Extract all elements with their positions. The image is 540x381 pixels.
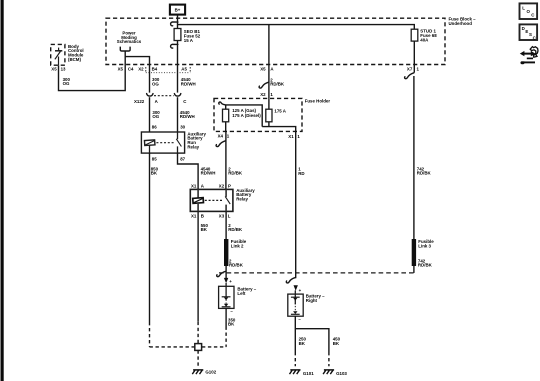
wire 742 RD/BK to fusible link 3: [413, 76, 415, 239]
fuse SEO B1 Fuse 52 15A: [174, 29, 181, 41]
svg-text:B+: B+: [175, 8, 181, 13]
B+ battery feed node: [170, 5, 185, 15]
relay K2 pin labels X1 B X3 L: [191, 214, 231, 219]
wire label 250 BK: [299, 337, 307, 346]
svg-text:RD/BK: RD/BK: [418, 263, 433, 268]
svg-text:40A: 40A: [420, 38, 429, 43]
dashed wire to G103: [328, 352, 330, 366]
wire label 850 BK: [151, 166, 159, 175]
wire label 300 OG (BCM): [63, 77, 71, 86]
svg-text:Relay: Relay: [236, 196, 248, 201]
svg-text:Link 2: Link 2: [231, 244, 244, 249]
svg-text:X5: X5: [51, 66, 57, 71]
connector X122: [147, 94, 181, 96]
ground G102: [192, 370, 203, 374]
wire B+ into fuse block: [177, 15, 179, 29]
wire label 1 RD: [298, 167, 304, 176]
icon LOC button: [520, 3, 538, 19]
svg-text:BK: BK: [151, 171, 158, 176]
svg-text:RD/BK: RD/BK: [228, 227, 243, 232]
wire 350 BK battery left negative: [225, 308, 227, 326]
connector hook battery right: [286, 278, 295, 283]
svg-text:BK: BK: [228, 322, 235, 327]
svg-text:L: L: [228, 214, 231, 219]
svg-text:X7: X7: [407, 67, 413, 72]
dashed wire to G101: [294, 352, 296, 366]
terminal arrow battery left positive: [224, 278, 232, 284]
dashed wire 550 BK to splice: [197, 322, 199, 344]
svg-text:X2: X2: [138, 66, 144, 71]
svg-text:X5: X5: [260, 66, 266, 71]
svg-text:175 A (Diesel): 175 A (Diesel): [232, 113, 261, 118]
fuse 125A gas 175A diesel: [223, 105, 229, 131]
wire 550 BK from K2 coil: [197, 211, 199, 321]
svg-text:RD/BK: RD/BK: [417, 171, 432, 176]
relay K2 pin labels X1 A X2 P: [191, 183, 231, 188]
X122 pin labels: [134, 99, 187, 104]
svg-text:E: E: [525, 29, 528, 34]
connector hook X4: [216, 141, 225, 147]
svg-text:X2: X2: [260, 92, 266, 97]
relay K2 Auxiliary Battery Relay: [190, 189, 233, 211]
wire label 550 BK: [201, 223, 209, 232]
fusible link 3 label: [418, 239, 434, 248]
BCM pin X5 13: [51, 66, 66, 71]
svg-text:RD/WH: RD/WH: [201, 171, 216, 176]
wire label 4540 RD/WH (A5): [181, 77, 196, 86]
svg-text:Relay: Relay: [187, 144, 199, 149]
wire label 2 RD/BK: [270, 77, 285, 86]
wire link 3 to dashed bus: [413, 266, 415, 273]
wire label 742 RD/BK (below link): [418, 258, 433, 267]
svg-text:RD/BK: RD/BK: [229, 263, 244, 268]
wire 1 RD from fuse holder to battery right: [295, 131, 297, 278]
svg-text:O: O: [527, 9, 531, 14]
dashed bus battery feed (off-page): [219, 272, 414, 274]
wire label 742 RD/BK: [417, 166, 432, 175]
icon DESC button: [520, 24, 538, 40]
svg-text:RD/WH: RD/WH: [180, 114, 195, 119]
svg-text:Left: Left: [237, 291, 246, 296]
svg-text:D: D: [522, 26, 525, 31]
connector hook battery left: [217, 271, 226, 276]
wire label 2 RD/BK (below link): [229, 258, 244, 267]
pin labels X2 1: [260, 92, 273, 97]
wire top feed rail to STUD 1: [178, 25, 415, 30]
battery right label: [306, 294, 325, 303]
relay K2 label: [236, 188, 255, 202]
svg-text:Schematics: Schematics: [117, 39, 142, 44]
svg-text:RD/BK: RD/BK: [228, 171, 243, 176]
fuse holder dashed box: [214, 98, 302, 131]
svg-text:+: +: [299, 288, 302, 293]
BCM label: [68, 44, 84, 62]
fuse F1 value label: [184, 29, 201, 43]
svg-text:+: +: [229, 279, 232, 284]
wire label 2 RD/BK (to link): [228, 223, 243, 232]
svg-text:86: 86: [152, 125, 157, 130]
wire fuse holder internal rail bottom to X1: [262, 127, 296, 132]
connector dotted line B4 to A5: [146, 72, 190, 74]
svg-text:X4: X4: [218, 134, 224, 139]
svg-text:87: 87: [180, 157, 185, 162]
fuse value label 125A/175A: [232, 108, 261, 118]
pin labels X5 C4: [118, 66, 134, 71]
svg-text:G102: G102: [205, 370, 216, 375]
fuse STUD 1 Fuse 68 40A: [411, 29, 418, 41]
pin labels X5 A (feed to fuse holder): [260, 66, 274, 71]
svg-text:85: 85: [152, 157, 157, 162]
svg-text:30: 30: [180, 125, 185, 130]
wire label 4540 RD/WH (to K2): [201, 166, 216, 175]
svg-text:BK: BK: [299, 341, 306, 346]
dashed wire splice to G102: [197, 350, 199, 367]
splice S1: [195, 344, 202, 351]
fusible link 2 label: [231, 239, 247, 248]
svg-text:P: P: [228, 183, 231, 188]
dashed wire 850 BK to ground bus: [149, 322, 151, 347]
wire link 2 to battery left: [225, 266, 227, 278]
wire label 300 OG (B4): [152, 77, 160, 86]
wire 2 RD/BK from K2 switch: [225, 211, 227, 239]
svg-text:RD: RD: [298, 171, 304, 176]
wire label 350 BK: [228, 317, 236, 326]
svg-text:OG: OG: [63, 81, 70, 86]
fusible link 2: [224, 239, 228, 266]
wire X122-C to relay switch: [177, 97, 179, 132]
svg-text:X3: X3: [219, 214, 225, 219]
svg-text:RD/BK: RD/BK: [270, 82, 285, 87]
svg-text:OG: OG: [152, 114, 159, 119]
connector hook X2: [259, 82, 269, 88]
svg-text:X122: X122: [134, 99, 145, 104]
pin label A5: [181, 66, 190, 71]
fusible link 3: [412, 239, 416, 266]
svg-text:Fuse Holder: Fuse Holder: [305, 99, 331, 104]
pin labels X1 1: [288, 134, 300, 139]
svg-text:175 A: 175 A: [274, 109, 286, 114]
power moding schematics reference: [117, 30, 142, 51]
wire 450 BK branch: [295, 329, 329, 352]
wire 2 RD/BK from fuse block to fuse holder: [268, 25, 270, 99]
wire STUD 1 fuse to X7: [413, 41, 415, 72]
svg-text:B: B: [201, 214, 204, 219]
svg-text:X1: X1: [191, 183, 197, 188]
svg-text:A5: A5: [181, 66, 187, 71]
ground G101: [290, 370, 301, 374]
wire 2 RD/BK fuse to relay K2 switch: [225, 131, 227, 189]
wire label 450 BK: [333, 337, 341, 346]
svg-text:L: L: [522, 5, 525, 10]
fuse block label: [449, 16, 477, 25]
svg-text:(BCM): (BCM): [68, 57, 81, 62]
svg-text:X2: X2: [219, 183, 225, 188]
svg-text:B4: B4: [152, 66, 158, 71]
wire fuse holder internal rail top: [226, 105, 263, 127]
svg-text:BK: BK: [201, 227, 208, 232]
wire label 2 RD/BK (to K2): [228, 166, 243, 175]
wire 850 BK from pin 85: [149, 153, 151, 322]
svg-text:G103: G103: [336, 371, 347, 376]
pin labels X7 1: [407, 67, 420, 72]
relay K1 label: [187, 131, 206, 149]
svg-text:X5: X5: [118, 66, 124, 71]
pin labels X4 1: [218, 134, 230, 139]
fuse block underhood dashed box: [106, 18, 445, 64]
svg-text:15 A: 15 A: [184, 38, 194, 43]
svg-text:S: S: [529, 32, 532, 37]
terminal arrow battery right positive: [294, 285, 302, 293]
connector hook X7: [405, 73, 414, 79]
svg-text:X1: X1: [288, 134, 294, 139]
dashed wire battery left to ground bus: [225, 327, 227, 347]
svg-text:C4: C4: [128, 66, 134, 71]
wire label 300 OG (coil): [152, 110, 160, 119]
battery left: [219, 283, 234, 310]
wire fuse 52 to pin A5: [177, 41, 179, 93]
wire X122-A to relay coil: [149, 97, 151, 132]
svg-text:Right: Right: [306, 298, 318, 303]
fuse F1 clip bottom: [171, 44, 178, 48]
wire label 4540 RD/WH (switch): [180, 110, 195, 119]
pin labels X2 B4: [138, 66, 158, 71]
svg-text:G101: G101: [303, 371, 314, 376]
relay K1 Auxiliary Battery Run Relay: [141, 132, 184, 153]
svg-text:Underhood: Underhood: [449, 21, 473, 26]
wire power moding branch: [59, 51, 126, 91]
battery left label: [237, 287, 256, 296]
wire branch to pin B4: [125, 57, 149, 93]
icon schematic navigation arrows: [520, 47, 538, 65]
wire 4540 from 87 to relay K2: [178, 153, 199, 189]
battery right: [288, 290, 303, 316]
ground G103: [323, 370, 334, 374]
svg-text:X1: X1: [191, 214, 197, 219]
dashed ground bus: [150, 346, 227, 348]
fuse F1 clip top: [171, 22, 178, 26]
svg-text:Link 3: Link 3: [418, 244, 431, 249]
svg-text:RD/WH: RD/WH: [181, 81, 196, 86]
body control module BCM: [51, 44, 65, 65]
svg-text:OG: OG: [152, 81, 159, 86]
left page border bar: [1, 0, 4, 381]
fuse STUD 1 value label: [420, 29, 437, 43]
stud hook inside fuse holder: [219, 102, 226, 105]
wire 250 BK battery right negative: [294, 316, 296, 352]
svg-text:13: 13: [61, 66, 66, 71]
svg-text:BK: BK: [333, 341, 340, 346]
fuse 175 A: [266, 98, 272, 126]
